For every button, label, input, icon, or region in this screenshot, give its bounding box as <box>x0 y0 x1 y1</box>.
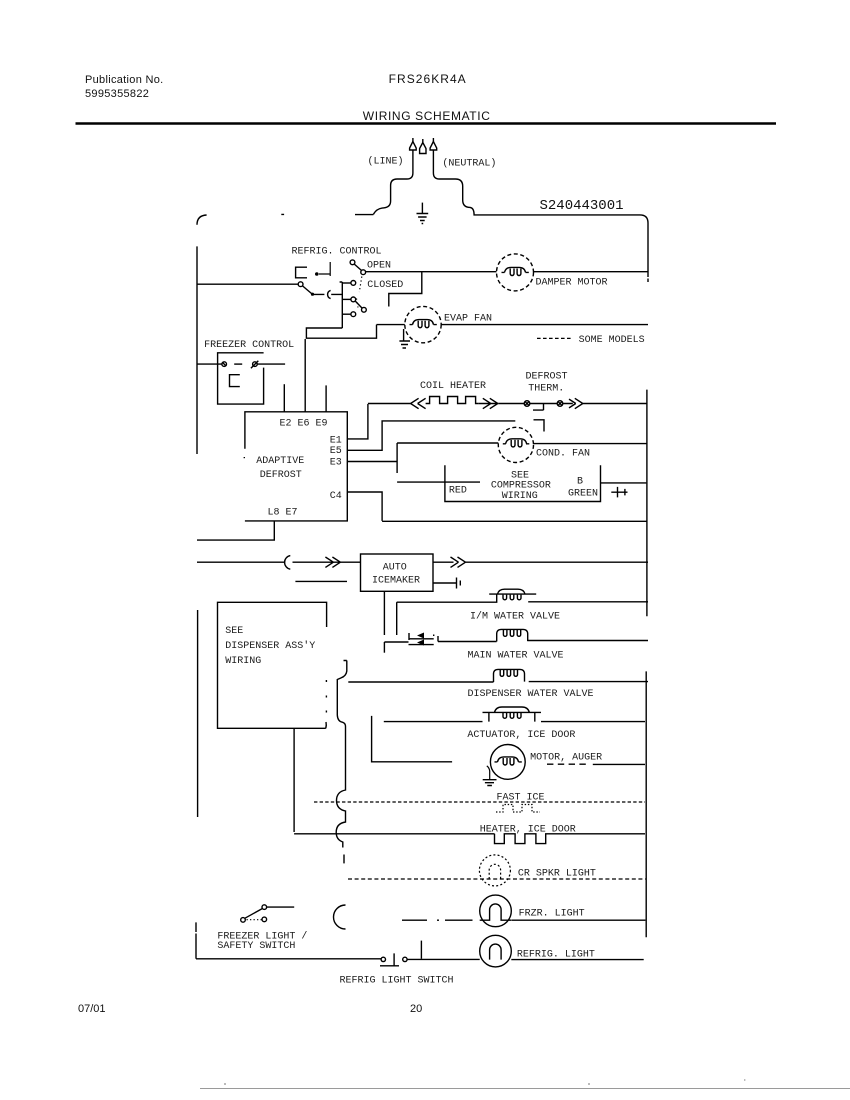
freezer switch pivot contact <box>241 918 246 923</box>
scan artifact bottom line <box>200 1088 850 1090</box>
freezer switch right contact <box>262 917 267 922</box>
contact row 3 stub <box>342 313 350 315</box>
svg-text:DISPENSER WATER VALVE: DISPENSER WATER VALVE <box>468 689 594 700</box>
freezer control contact right with blade <box>253 362 258 367</box>
wire: icemaker feed line from left border <box>197 561 331 563</box>
svg-text:HEATER, ICE DOOR: HEATER, ICE DOOR <box>480 825 576 836</box>
wire: vertical from dispenser box to heater line <box>293 729 295 832</box>
wire: plug line lead tail dashes to box corner <box>281 213 373 215</box>
hop arc on icemaker line <box>285 556 291 570</box>
wire: damper motor line from pivot to right border <box>366 271 648 273</box>
svg-text:DISPENSER ASS'Y: DISPENSER ASS'Y <box>225 640 315 652</box>
svg-text:ICEMAKER: ICEMAKER <box>372 576 420 587</box>
compressor wiring box <box>445 465 601 501</box>
wire: refrig light bottom line <box>196 958 480 961</box>
svg-text:S240443001: S240443001 <box>540 198 624 214</box>
pin E5 wire up and right <box>347 421 515 450</box>
wire: cond fan line <box>397 442 646 445</box>
switch bus vertical <box>340 282 343 328</box>
svg-text:FRS26KR4A: FRS26KR4A <box>389 72 467 86</box>
freezer control sensor C shape <box>230 375 240 387</box>
svg-text:(LINE): (LINE) <box>368 156 404 168</box>
svg-text:CR SPKR LIGHT: CR SPKR LIGHT <box>518 869 596 880</box>
icemaker left arrow <box>325 557 360 567</box>
see dispenser assy wiring box <box>218 602 327 728</box>
auto icemaker box <box>361 554 434 591</box>
svg-text:E1: E1 <box>330 435 342 446</box>
svg-text:E5: E5 <box>330 446 342 457</box>
freezer switch blade <box>245 909 262 919</box>
thermostat out arrow to right border <box>563 398 647 408</box>
refrig control lower: blade with tip <box>303 286 312 294</box>
contact row 2 stub <box>342 298 350 300</box>
wavy wire: lower dash <box>343 855 345 864</box>
wire RED to compressor <box>397 481 480 483</box>
adaptive defrost box <box>244 412 347 521</box>
contact row 3 <box>351 312 356 317</box>
svg-text:Publication No.: Publication No. <box>85 74 164 86</box>
freezer control contact left <box>222 362 227 367</box>
freezer/refrig switch: feed wire from left border <box>197 283 298 285</box>
refrig control: thermostat bracket <box>296 267 307 278</box>
wavy wire: bottom open hop <box>334 905 346 929</box>
right border main segment <box>645 390 648 938</box>
ground symbol at plug <box>417 203 429 224</box>
wire: plug line-side lead down-left <box>373 172 413 214</box>
motor auger <box>490 745 525 780</box>
svg-text:20: 20 <box>410 1003 422 1015</box>
pin E3 wire to cond fan node <box>347 443 397 473</box>
stub wire left of icemaker <box>295 580 347 582</box>
svg-text:GREEN: GREEN <box>568 489 598 500</box>
svg-text:FREEZER CONTROL: FREEZER CONTROL <box>204 340 294 351</box>
refrig control: common pivot contact <box>361 270 366 275</box>
freezer control linkage dash <box>234 363 242 365</box>
coil heater line left arrow <box>368 398 426 408</box>
pin L8 wire down-left to border <box>197 521 274 540</box>
svg-text:(NEUTRAL): (NEUTRAL) <box>442 158 496 170</box>
wire: motor auger right dashes to border <box>547 763 587 765</box>
refrig control: dotted linkage upper <box>359 277 362 293</box>
svg-text:B: B <box>577 476 583 487</box>
wire: heater ice door line <box>294 833 645 835</box>
connector symbol right of GREEN <box>611 487 627 498</box>
svg-text:SEE: SEE <box>225 626 243 637</box>
bus stub to closed contact <box>342 282 350 284</box>
svg-text:L8 E7: L8 E7 <box>268 508 298 519</box>
wire: motor auger branch <box>372 716 453 762</box>
svg-text:REFRIG LIGHT SWITCH: REFRIG LIGHT SWITCH <box>340 976 454 987</box>
coil heater right arrow <box>478 398 499 408</box>
svg-text:DEFROST: DEFROST <box>526 372 568 383</box>
actuator ice door coil <box>483 707 542 722</box>
wire: branch from damper line down to evap row <box>389 272 422 307</box>
svg-text:DAMPER MOTOR: DAMPER MOTOR <box>536 278 608 289</box>
wavy wire: segment 1 <box>336 679 345 848</box>
svg-text:CLOSED: CLOSED <box>367 280 403 291</box>
wire E9 drop to defrost box <box>325 385 327 411</box>
refrig control lower: left contact <box>298 282 303 287</box>
header rule <box>76 122 777 124</box>
freezer light line dash-dot left <box>402 919 473 921</box>
svg-text:ACTUATOR, ICE DOOR: ACTUATOR, ICE DOOR <box>467 730 575 741</box>
svg-text:AUTO: AUTO <box>383 563 407 574</box>
freezer light lamp <box>480 895 512 927</box>
wire: plug neutral-side lead down-right, top edge to right corner <box>433 172 648 277</box>
fast ice dotted heater element <box>496 805 540 813</box>
pin C4 wire down <box>347 492 382 521</box>
svg-text:COIL HEATER: COIL HEATER <box>420 381 486 392</box>
evap fan motor <box>405 306 441 342</box>
crisper light dashed line <box>348 878 645 880</box>
svg-text:WIRING: WIRING <box>225 656 261 667</box>
wavy wire: top hook <box>337 661 347 680</box>
icemaker out arrow to right border <box>433 557 648 567</box>
svg-text:DEFROST: DEFROST <box>260 470 302 481</box>
dashes before SOME MODELS <box>537 337 571 339</box>
svg-text:MAIN WATER VALVE: MAIN WATER VALVE <box>468 651 564 662</box>
icemaker aux terminal wire <box>433 578 460 589</box>
ground symbol at evap fan <box>399 329 410 348</box>
E5 corner fragment <box>534 420 545 432</box>
ground symbol at motor auger <box>483 766 497 786</box>
fast ice dashed line <box>314 801 645 803</box>
wire E6 drop to defrost box <box>304 339 306 412</box>
coil heater element <box>426 397 479 404</box>
wire: main water valve line left <box>384 641 408 643</box>
power plug prong (LINE) <box>410 138 417 172</box>
pin E1 wire up to coil heater line <box>347 404 368 439</box>
svg-text:C4: C4 <box>330 491 342 502</box>
wire GREEN to right border <box>601 482 647 484</box>
svg-text:WIRING: WIRING <box>502 491 538 502</box>
wire: icemaker drop <box>383 591 385 635</box>
dotted linkage lower <box>357 299 359 308</box>
wire: evap fan line <box>377 324 649 326</box>
wire: refrig light line right <box>511 959 643 961</box>
svg-text:FAST ICE: FAST ICE <box>497 793 545 804</box>
refrig light lamp <box>480 935 512 967</box>
svg-text:COMPRESSOR: COMPRESSOR <box>491 481 551 492</box>
freezer control switch feed from border <box>197 363 222 365</box>
wire to defrost thermostat <box>499 403 524 405</box>
svg-text:OPEN: OPEN <box>367 261 391 272</box>
svg-text:MOTOR, AUGER: MOTOR, AUGER <box>530 753 602 764</box>
wire: I/M valve drop <box>396 602 398 635</box>
svg-text:07/01: 07/01 <box>78 1003 106 1015</box>
svg-text:FRZR. LIGHT: FRZR. LIGHT <box>519 909 585 920</box>
svg-text:I/M WATER VALVE: I/M WATER VALVE <box>470 611 560 623</box>
header: publication number <box>85 74 164 100</box>
svg-text:COND. FAN: COND. FAN <box>536 449 590 460</box>
cond fan motor <box>498 427 533 462</box>
svg-text:THERM.: THERM. <box>528 384 564 395</box>
wire: freezer light to border <box>511 919 645 921</box>
heater ice door element <box>495 834 548 844</box>
svg-text:5995355822: 5995355822 <box>85 88 149 100</box>
svg-text:EVAP FAN: EVAP FAN <box>444 314 492 325</box>
left border (upper segment) <box>196 246 198 454</box>
left border (lower segment) <box>197 610 199 817</box>
wire: dispenser valve line <box>348 681 648 683</box>
blade row2 with tip <box>355 301 362 308</box>
power plug prong middle (ground pin) <box>420 139 426 154</box>
wire: blade tip to bus with hop <box>314 293 342 295</box>
damper motor <box>497 254 534 291</box>
svg-text:E2 E6 E9: E2 E6 E9 <box>280 419 328 430</box>
defrost thermostat body jog <box>533 404 544 411</box>
svg-text:REFRIG. CONTROL: REFRIG. CONTROL <box>292 247 382 258</box>
power plug prong (NEUTRAL) <box>430 138 437 172</box>
svg-text:SOME MODELS: SOME MODELS <box>579 335 645 346</box>
wire: bus bottom to evap fan <box>306 325 376 339</box>
svg-text:SAFETY SWITCH: SAFETY SWITCH <box>217 941 295 952</box>
wire between thermostat contacts <box>530 403 557 405</box>
outer box top-left rounded corner <box>197 215 207 225</box>
wire E2 drop to defrost box <box>283 384 285 412</box>
refrig control: CLOSED contact <box>351 281 356 286</box>
freezer switch top contact wire <box>267 906 294 908</box>
right border dash below damper junction <box>647 279 649 283</box>
svg-text:WIRING SCHEMATIC: WIRING SCHEMATIC <box>363 109 491 123</box>
svg-text:REFRIG. LIGHT: REFRIG. LIGHT <box>517 950 595 961</box>
wire: stub above refrig light line <box>420 941 422 959</box>
freezer light/safety switch contact top <box>262 905 267 910</box>
main water valve coil <box>497 629 528 641</box>
defrost thermostat contact 2 <box>557 401 563 407</box>
I/M water valve coil <box>498 589 526 600</box>
wire: icemaker drop elbow to main valve line <box>383 642 385 653</box>
wire: I/M water valve line <box>397 594 648 602</box>
refrig control: OPEN contact <box>350 260 355 265</box>
wire: main water valve line <box>438 641 648 642</box>
dispenser water valve coil <box>494 669 525 682</box>
left border bottom stub <box>195 922 197 958</box>
refrig control: sensor dot and capillary <box>319 262 330 276</box>
freezer control switch out wire <box>257 363 285 365</box>
wire: bottom bus C4 to right border <box>382 520 646 522</box>
svg-text:E3: E3 <box>330 458 342 469</box>
check valve symbol <box>409 633 439 646</box>
defrost thermostat contact 1 <box>524 401 530 407</box>
svg-text:ADAPTIVE: ADAPTIVE <box>256 456 304 467</box>
refrig control: switch blade open->pivot <box>354 264 361 270</box>
freezer control box <box>218 353 264 404</box>
svg-text:RED: RED <box>449 486 467 497</box>
crisper light lamp (dotted) <box>479 855 510 886</box>
contact row 2 <box>351 297 356 302</box>
wire hop arc <box>328 290 331 298</box>
wire: actuator ice door line <box>384 721 645 723</box>
freezer switch dotted row <box>247 919 262 921</box>
refrig light switch contacts <box>380 953 407 965</box>
